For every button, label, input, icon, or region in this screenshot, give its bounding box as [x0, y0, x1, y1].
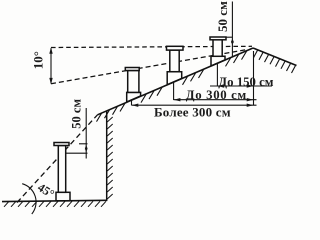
45-degree dashed line	[17, 115, 98, 203]
svg-text:50 см: 50 см	[69, 99, 83, 129]
10deg angle dimension line	[50, 48, 52, 83]
row1 arrows	[218, 84, 225, 87]
svg-text:10°: 10°	[30, 51, 45, 69]
chimney C1 (far slope, >300cm)	[125, 68, 140, 103]
50cm C3 arrows	[231, 38, 234, 43]
10deg dim arrows	[49, 47, 52, 54]
50cm dimension at chimney C4	[66, 108, 88, 159]
svg-text:45°: 45°	[35, 180, 57, 201]
ridge-level dashed line	[51, 46, 252, 47]
dimension arrowheads	[49, 38, 253, 153]
10-degree dashed line	[51, 49, 248, 83]
svg-text:До 150 см: До 150 см	[218, 75, 273, 89]
row2 arrows	[174, 98, 181, 101]
50cm dimension at chimney C3	[226, 2, 232, 57]
house wall	[106, 111, 108, 201]
chimney C4 (ground chimney at left)	[54, 143, 70, 201]
svg-text:До 300 см: До 300 см	[186, 88, 247, 102]
svg-text:Более 300 см: Более 300 см	[154, 104, 231, 119]
witness line from chimney C3	[216, 63, 218, 86]
roof left slope	[98, 48, 254, 115]
dimension line "Do 300 cm"	[174, 99, 257, 101]
witness line from chimney C1	[131, 100, 133, 105]
chimney C3 (near ridge, up to 150cm)	[210, 37, 226, 66]
ground hatching	[4, 201, 106, 207]
roof hatching left slope	[97, 51, 247, 121]
row3 arrows	[132, 104, 139, 107]
ground line	[2, 200, 107, 201]
45deg angle arc	[22, 184, 36, 214]
wall hatching	[107, 117, 113, 199]
witness line from ridge	[253, 51, 255, 106]
dimension line "Do 150 cm"	[210, 85, 272, 87]
svg-text:50 см: 50 см	[215, 1, 230, 32]
chimney C2 (middle, up to 300cm)	[167, 46, 184, 84]
roof hatching right slope	[254, 50, 296, 73]
dimension line "Bolee 300 cm"	[132, 104, 257, 106]
witness line from chimney C2	[173, 82, 175, 100]
50cm C4 arrows	[85, 144, 88, 149]
roof right slope	[253, 48, 297, 66]
